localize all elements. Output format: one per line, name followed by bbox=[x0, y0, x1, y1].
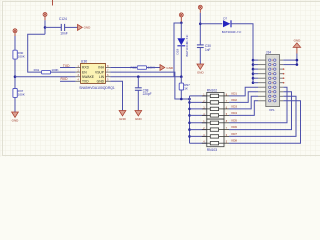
capacitor C98 220pF bbox=[135, 88, 152, 96]
wire bbox=[60, 80, 76, 82]
wire bbox=[147, 67, 160, 69]
svg-text:100K: 100K bbox=[18, 55, 26, 59]
svg-text:GND: GND bbox=[12, 118, 20, 122]
ground GND (right of C124, horizontal) bbox=[78, 24, 92, 30]
svg-text:220pF: 220pF bbox=[143, 92, 152, 96]
node junction C98 tap bbox=[137, 75, 140, 78]
wire bbox=[253, 59, 258, 61]
svg-text:NWAKE: NWAKE bbox=[82, 75, 95, 79]
wire bbox=[229, 87, 258, 96]
resistor network RN103 bbox=[207, 119, 224, 152]
wire bbox=[51, 71, 76, 73]
svg-text:LIN: LIN bbox=[99, 75, 105, 79]
node junction GND row2 bbox=[296, 63, 299, 66]
svg-text:U30: U30 bbox=[81, 60, 87, 64]
connector J34 header 2x10 bbox=[266, 51, 280, 112]
wire EN branch bbox=[28, 34, 45, 72]
connector pin pair row 3 bbox=[258, 68, 283, 70]
resistor R97 1K bbox=[179, 83, 190, 91]
ground GND (below R37) bbox=[12, 112, 20, 122]
svg-text:D7: D7 bbox=[223, 17, 227, 21]
wire NWAKE row to IC pin 3 bbox=[15, 76, 76, 78]
svg-text:R31: R31 bbox=[34, 68, 40, 72]
ground GND (below IC pin 5) bbox=[119, 111, 127, 121]
wire bbox=[180, 90, 182, 99]
capacitor C30 1nF bbox=[197, 44, 211, 52]
resistor network RN102 bbox=[207, 89, 224, 120]
node junction bus row 3 bbox=[188, 108, 191, 111]
wire bbox=[14, 59, 16, 88]
ground GND (top-right, pointing up) bbox=[293, 39, 301, 54]
wire bbox=[229, 87, 287, 123]
wire bbox=[200, 23, 222, 25]
node junction D7 tap bbox=[199, 23, 202, 26]
wire bbox=[283, 59, 297, 61]
svg-text:RN102: RN102 bbox=[207, 89, 217, 93]
unconnected pin ends rows 3-6 bbox=[283, 68, 285, 83]
wire bbox=[60, 67, 76, 69]
wire LIN bus vertical bbox=[189, 96, 191, 143]
wire bbox=[229, 92, 292, 130]
node junction J3 bus row 1 bbox=[252, 59, 255, 62]
svg-text:XD6: XD6 bbox=[231, 125, 237, 129]
svg-text:RXD: RXD bbox=[61, 77, 69, 81]
connector pin pair row 7 bbox=[258, 86, 283, 88]
svg-text:GND: GND bbox=[166, 66, 174, 70]
resistor element 7 in network bbox=[202, 134, 229, 138]
wire bbox=[180, 23, 182, 38]
connector pin pair row 1 bbox=[258, 59, 283, 61]
svg-text:EN: EN bbox=[82, 70, 87, 74]
resistor element 5 in network bbox=[202, 120, 229, 124]
connector pin pair row 6 bbox=[258, 82, 283, 84]
connector pin pair row 10 bbox=[258, 100, 283, 102]
svg-text:XD2: XD2 bbox=[231, 98, 237, 102]
svg-text:R82: R82 bbox=[131, 65, 137, 69]
wire bbox=[190, 95, 207, 97]
wire bbox=[253, 64, 258, 66]
resistor R30 100K bbox=[13, 50, 26, 59]
wire bbox=[137, 90, 139, 110]
svg-text:XD8: XD8 bbox=[231, 139, 237, 143]
wire bbox=[110, 67, 137, 69]
resistor element 3 in network bbox=[202, 106, 229, 110]
wire bbox=[229, 92, 258, 103]
power port P2 (EN supply) bbox=[43, 13, 47, 21]
wire bbox=[110, 81, 122, 110]
wire bbox=[231, 24, 253, 83]
node junction VBAT bbox=[180, 22, 183, 25]
wire bbox=[65, 26, 78, 28]
diode D7 BAT3004F-7-F bbox=[222, 17, 242, 35]
node junction GND row1 bbox=[296, 59, 299, 62]
connector pin pair row 8 bbox=[258, 91, 283, 93]
wire bbox=[190, 114, 207, 116]
wire bbox=[229, 96, 296, 136]
node junction R97 bottom bbox=[180, 98, 183, 101]
power port P4 (battery supply) bbox=[179, 13, 183, 23]
svg-text:10nF: 10nF bbox=[60, 32, 68, 36]
node junction VSUP/D18 bbox=[180, 75, 183, 78]
wire bbox=[190, 135, 207, 137]
wire bbox=[190, 142, 207, 144]
svg-text:SN65HVDA100QDRQ1: SN65HVDA100QDRQ1 bbox=[79, 85, 115, 90]
svg-text:D18: D18 bbox=[176, 49, 180, 55]
connector pin pair row 2 bbox=[258, 63, 283, 65]
svg-text:XD7: XD7 bbox=[231, 132, 237, 136]
wire bbox=[45, 26, 61, 28]
svg-text:100K: 100K bbox=[18, 93, 26, 97]
svg-text:1nF: 1nF bbox=[205, 48, 211, 52]
wire bbox=[180, 46, 182, 77]
node junction C124 tap bbox=[44, 26, 47, 29]
node junction bus row 7 bbox=[188, 135, 191, 138]
wire bbox=[229, 101, 301, 143]
wire bbox=[190, 129, 207, 131]
svg-text:GND: GND bbox=[84, 26, 92, 30]
node junction J3 bus row 2 bbox=[252, 63, 255, 66]
resistor element 1 in network bbox=[202, 93, 229, 97]
svg-text:INH: INH bbox=[98, 66, 104, 70]
wire bbox=[253, 82, 258, 84]
wire bbox=[199, 13, 201, 45]
svg-text:XD3: XD3 bbox=[231, 104, 237, 108]
svg-text:XP1: XP1 bbox=[269, 108, 275, 112]
svg-text:VSUP: VSUP bbox=[95, 70, 105, 74]
node junction J3 bus row 4 bbox=[252, 72, 255, 75]
diode D18 BAT3004F-7-F bbox=[176, 34, 189, 56]
resistor R82 100K bbox=[131, 65, 156, 69]
node junction bus row 5 bbox=[188, 122, 191, 125]
wire bbox=[14, 36, 16, 50]
node junction J3 bus row 3 bbox=[252, 68, 255, 71]
svg-text:RN103: RN103 bbox=[207, 148, 217, 152]
resistor element 8 in network bbox=[202, 141, 229, 145]
svg-text:XD4: XD4 bbox=[231, 111, 237, 115]
wire bbox=[190, 122, 207, 124]
svg-text:GND: GND bbox=[197, 70, 205, 74]
power port P1 (top-left supply) bbox=[13, 29, 17, 36]
connector pin pair row 5 bbox=[258, 77, 283, 79]
node junction J3 bus row 6 bbox=[252, 81, 255, 84]
svg-text:RXD: RXD bbox=[82, 66, 90, 70]
node junction bus row 4 bbox=[188, 114, 191, 117]
pins 8-5 right (INH,VSUP,LIN,GND) bbox=[105, 65, 110, 82]
svg-text:GND: GND bbox=[97, 80, 105, 84]
svg-text:C124: C124 bbox=[59, 17, 67, 21]
svg-text:GND: GND bbox=[294, 39, 302, 43]
wire bbox=[190, 108, 207, 110]
node junction J3 bus row 5 bbox=[252, 77, 255, 80]
resistor element 6 in network bbox=[202, 127, 229, 131]
wire LIN descent bbox=[175, 77, 190, 99]
IC U30 SN65HVDA100QDRQ1 LIN transceiver bbox=[79, 60, 115, 90]
wire bbox=[44, 20, 46, 34]
wire LIN row bbox=[110, 76, 180, 78]
connector pin pair row 9 bbox=[258, 95, 283, 97]
wire VBAT bypass branch bbox=[174, 23, 181, 77]
power port P3 (VBAT input) bbox=[198, 5, 202, 13]
svg-text:TXD: TXD bbox=[82, 80, 89, 84]
wire bbox=[199, 48, 201, 65]
node junction bus row 6 bbox=[188, 128, 191, 131]
wire bbox=[180, 77, 182, 83]
wire bbox=[283, 64, 297, 66]
resistor element 4 in network bbox=[202, 113, 229, 117]
svg-text:J34: J34 bbox=[266, 51, 271, 55]
ground GND (below C30) bbox=[197, 64, 205, 74]
resistor R37 100K bbox=[13, 89, 26, 98]
wire bbox=[229, 96, 258, 109]
wire bbox=[253, 73, 258, 75]
capacitor C124 10nF bbox=[59, 17, 68, 35]
svg-text:GND: GND bbox=[119, 117, 127, 121]
node junction bus row 2 bbox=[188, 101, 191, 104]
wire bbox=[190, 101, 207, 103]
wire bbox=[229, 101, 258, 116]
ground GND (right of R82, horizontal) bbox=[160, 65, 174, 71]
svg-text:XD1: XD1 bbox=[231, 91, 237, 95]
svg-text:XD5: XD5 bbox=[231, 118, 237, 122]
svg-text:BAT3004F-7-F: BAT3004F-7-F bbox=[185, 34, 189, 56]
node junction LIN bus tap bbox=[188, 98, 191, 101]
svg-text:GND: GND bbox=[135, 117, 143, 121]
resistor R31 100K bbox=[34, 68, 60, 74]
pins 1-4 left (RXD,EN,NWAKE,TXD) bbox=[76, 65, 81, 82]
wire (clipped power stub at top edge) bbox=[52, 0, 54, 6]
wire bbox=[14, 97, 16, 112]
wire bbox=[253, 68, 258, 70]
wire bbox=[253, 77, 258, 79]
connector pin pair row 4 bbox=[258, 73, 283, 75]
ground GND (below C98) bbox=[135, 111, 143, 121]
wire bbox=[296, 54, 298, 65]
sheet border bbox=[3, 2, 320, 156]
svg-text:BAT3004F-7-F: BAT3004F-7-F bbox=[222, 30, 242, 34]
wire VSUP row with jog bbox=[110, 72, 174, 77]
node junction NWAKE bbox=[14, 75, 17, 78]
wire bbox=[137, 77, 139, 88]
resistor element 2 in network bbox=[202, 100, 229, 104]
